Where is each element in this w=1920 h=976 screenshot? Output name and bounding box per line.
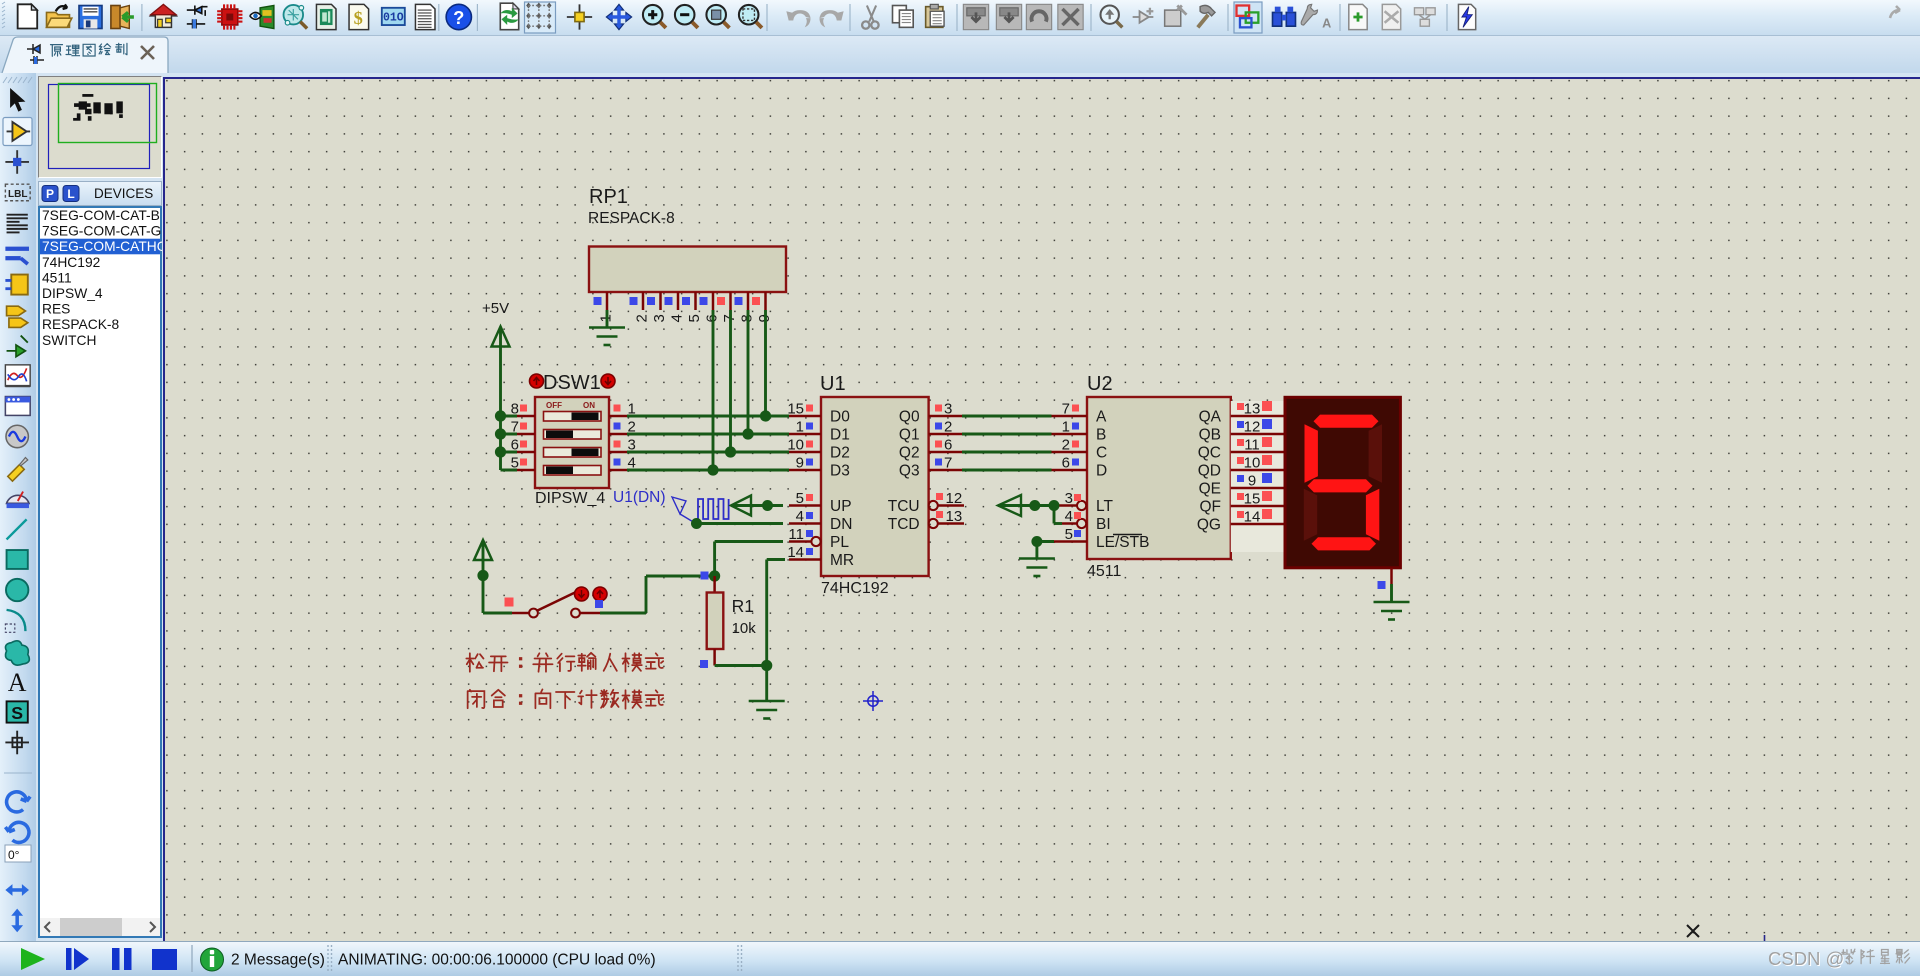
svg-text:7: 7	[511, 419, 519, 436]
svg-text:4: 4	[796, 508, 804, 525]
wire U1.Q1 to U2.B	[962, 433, 1052, 436]
svg-text:QD: QD	[1198, 463, 1221, 480]
svg-text:RESPACK-8: RESPACK-8	[42, 317, 120, 332]
svg-text:9: 9	[1248, 473, 1256, 490]
svg-text:74HC192: 74HC192	[821, 580, 889, 597]
wire DSW1.3 to U1.D2	[627, 451, 789, 454]
svg-text:D1: D1	[830, 427, 850, 444]
svg-text:D2: D2	[830, 445, 850, 462]
svg-text:UP: UP	[830, 498, 852, 515]
generator U1(DN) clock	[613, 489, 729, 523]
svg-text:15: 15	[1244, 491, 1261, 508]
svg-text:3: 3	[651, 314, 668, 322]
IC U1 74HC192	[787, 373, 964, 597]
svg-text:14: 14	[1244, 509, 1261, 526]
segment C (lit)	[1366, 489, 1379, 541]
svg-text:?: ?	[453, 7, 464, 28]
svg-text:4511: 4511	[42, 270, 72, 285]
svg-text:7SEG-COM-CAT-B: 7SEG-COM-CAT-B	[42, 208, 160, 223]
ground (display)	[1374, 601, 1410, 604]
svg-text:QA: QA	[1199, 409, 1222, 426]
wire RP1.6 to D3 net	[712, 310, 715, 470]
wire MR net	[767, 560, 785, 666]
ground (RP1 pin 1)	[589, 310, 625, 345]
segment D (lit)	[1312, 537, 1377, 550]
resistor R1 10k	[700, 576, 756, 668]
svg-text:8: 8	[511, 401, 519, 418]
svg-text:QG: QG	[1197, 517, 1221, 534]
svg-text:14: 14	[787, 544, 804, 561]
svg-text:CSDN @: CSDN @	[1768, 948, 1844, 969]
wire U1.Q2 to U2.C	[962, 451, 1052, 454]
svg-text:U2: U2	[1087, 373, 1113, 395]
svg-text:TCD: TCD	[888, 516, 920, 533]
wire U1.Q0 to U2.A	[962, 415, 1052, 418]
power terminal (switch)	[474, 540, 492, 576]
7-segment display body	[1285, 397, 1400, 568]
wire DSW1.1 to U1.D0	[627, 415, 789, 418]
ground (R1)	[749, 666, 785, 719]
svg-text:QE: QE	[1199, 481, 1221, 498]
wire DSW1.2 to U1.D1	[627, 433, 789, 436]
switch DSW1 (DIPSW_4)	[530, 372, 616, 488]
switch SW-SPST	[505, 587, 608, 617]
svg-text:DIPSW_4: DIPSW_4	[42, 286, 103, 301]
svg-text:2: 2	[1062, 437, 1070, 454]
wire PL net	[715, 542, 783, 577]
svg-text:A: A	[8, 668, 27, 697]
svg-text:12: 12	[946, 490, 963, 507]
svg-text:6: 6	[944, 437, 952, 454]
svg-text:A: A	[1322, 16, 1331, 30]
svg-text:LBL: LBL	[8, 189, 27, 200]
svg-text:QB: QB	[1199, 427, 1221, 444]
wire LT to BI	[1053, 506, 1056, 524]
svg-text:TCU: TCU	[888, 498, 920, 515]
svg-text:5: 5	[796, 490, 804, 507]
wire R1 bottom to ground node	[715, 660, 773, 671]
annotation line 2	[468, 689, 664, 708]
wire switch to R1 top node	[600, 576, 715, 613]
svg-text:MR: MR	[830, 552, 854, 569]
svg-text:RP1: RP1	[589, 186, 628, 208]
svg-text:2: 2	[944, 419, 952, 436]
wire RP1.8 to D1 net	[747, 310, 750, 434]
svg-text:11: 11	[1244, 437, 1260, 454]
svg-text:RESPACK-8: RESPACK-8	[588, 210, 675, 227]
svg-text:10k: 10k	[732, 620, 757, 637]
svg-text:Q0: Q0	[899, 409, 920, 426]
svg-text:RES: RES	[42, 302, 70, 317]
segment A (lit)	[1314, 415, 1379, 428]
svg-text:LT: LT	[1096, 498, 1113, 515]
wire +5V bus to DSW1 pins	[495, 410, 517, 470]
wire to switch	[477, 570, 512, 613]
svg-text:QF: QF	[1199, 499, 1221, 516]
svg-text:+5V: +5V	[482, 300, 509, 317]
svg-text:6: 6	[1062, 455, 1070, 472]
segment G (lit)	[1307, 479, 1372, 492]
annotation line 1	[466, 653, 663, 672]
svg-text:12: 12	[1244, 419, 1261, 436]
wire DSW1.4 to U1.D3	[627, 469, 789, 472]
svg-text:4: 4	[669, 314, 686, 322]
svg-text:Q3: Q3	[899, 463, 920, 480]
svg-text:U1: U1	[820, 373, 846, 395]
svg-text:P: P	[46, 187, 54, 201]
svg-text:3: 3	[944, 401, 952, 418]
resistor pack RP1	[588, 186, 786, 323]
segment B (unlit)	[1369, 424, 1382, 483]
7-segment display pins strip	[1231, 401, 1285, 553]
svg-text:$: $	[354, 8, 363, 28]
DSW1 right pins 1,2,3,4	[609, 401, 636, 472]
wire LE/STB to ground	[1031, 536, 1054, 558]
svg-text:L: L	[67, 187, 74, 201]
svg-text:0°: 0°	[8, 848, 20, 862]
svg-text:1: 1	[1062, 419, 1070, 436]
svg-text:DIPSW_4: DIPSW_4	[535, 490, 605, 507]
svg-text:74HC192: 74HC192	[42, 255, 100, 270]
svg-text:S: S	[11, 703, 23, 723]
svg-text:ON: ON	[583, 401, 595, 410]
svg-text:7: 7	[944, 455, 952, 472]
svg-text:10: 10	[787, 437, 804, 454]
arrow into U2.LT	[998, 495, 1060, 516]
svg-text:2: 2	[634, 314, 651, 322]
svg-text:D: D	[1096, 463, 1107, 480]
svg-text:DN: DN	[830, 516, 852, 533]
window divider	[1764, 935, 1766, 941]
display common pin	[1378, 568, 1392, 601]
ground (U2.LE)	[1019, 557, 1055, 560]
segment F (lit)	[1305, 424, 1318, 483]
wire U1.Q3 to U2.D	[962, 469, 1052, 472]
svg-text:10: 10	[1244, 455, 1261, 472]
svg-text:5: 5	[686, 314, 703, 322]
svg-text:5: 5	[511, 455, 519, 472]
segment E (unlit)	[1304, 489, 1317, 541]
svg-text:BI: BI	[1096, 516, 1111, 533]
svg-text:OFF: OFF	[546, 401, 562, 410]
svg-text:1: 1	[796, 419, 804, 436]
svg-text:DEVICES: DEVICES	[94, 186, 153, 201]
svg-text:B: B	[1096, 427, 1106, 444]
svg-text:ANIMATING: 00:00:06.100000 (CP: ANIMATING: 00:00:06.100000 (CPU load 0%)	[338, 952, 656, 969]
node R1 top	[701, 570, 721, 581]
svg-text:5: 5	[1065, 526, 1073, 543]
svg-text:PL: PL	[830, 534, 849, 551]
svg-text:Q1: Q1	[899, 427, 920, 444]
wire clock to U1.DN	[691, 518, 783, 529]
svg-text:A: A	[1096, 409, 1107, 426]
svg-text:SWITCH: SWITCH	[42, 333, 96, 348]
svg-text:DSW1: DSW1	[543, 372, 601, 394]
svg-text:7: 7	[1062, 401, 1070, 418]
power +5V terminal	[482, 300, 510, 470]
svg-text:7SEG-COM-CAT-G: 7SEG-COM-CAT-G	[42, 224, 161, 239]
svg-text:QC: QC	[1198, 445, 1221, 462]
DSW1 left pins 8,7,6,5	[511, 401, 535, 472]
svg-text:01O: 01O	[383, 11, 404, 24]
svg-text:3: 3	[1065, 490, 1073, 507]
IC U2 4511	[1052, 373, 1231, 580]
wire RP1.9 to D0 net	[764, 310, 767, 416]
svg-text:15: 15	[787, 401, 804, 418]
svg-text:11: 11	[788, 526, 804, 543]
svg-text:R1: R1	[732, 596, 754, 616]
origin marker	[863, 691, 883, 711]
svg-text:D0: D0	[830, 409, 850, 426]
svg-text:7SEG-COM-CATHO: 7SEG-COM-CATHO	[42, 239, 162, 254]
svg-text:6: 6	[511, 437, 519, 454]
wire RP1.7 to D2 net	[729, 310, 732, 452]
svg-text:D3: D3	[830, 463, 850, 480]
sheet corner x marker	[1687, 925, 1699, 937]
svg-text:C: C	[1096, 445, 1107, 462]
svg-text:4511: 4511	[1087, 563, 1122, 580]
svg-text:4: 4	[1065, 508, 1073, 525]
svg-text:13: 13	[1244, 401, 1261, 418]
svg-text:LE/STB: LE/STB	[1096, 534, 1149, 551]
svg-text:2 Message(s): 2 Message(s)	[231, 952, 325, 969]
svg-text:U1(DN): U1(DN)	[613, 489, 666, 506]
svg-text:9: 9	[796, 455, 804, 472]
svg-text:13: 13	[946, 508, 963, 525]
svg-text:Q2: Q2	[899, 445, 920, 462]
arrow into U1.UP	[731, 496, 783, 516]
